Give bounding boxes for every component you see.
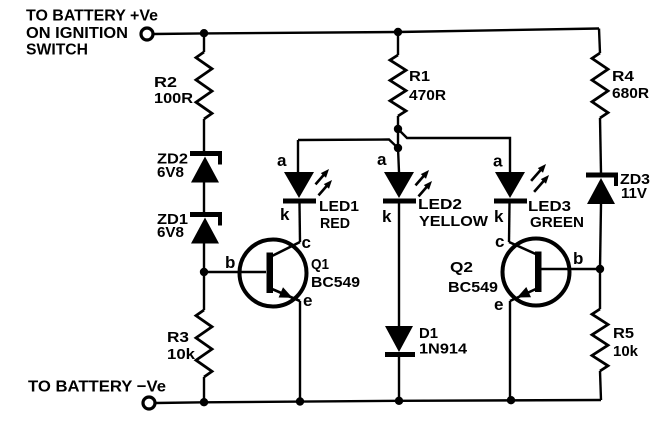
wire: LED1 cathode to Q1 collector — [298, 204, 301, 243]
svg-text:LED2: LED2 — [418, 196, 462, 213]
LED3 emission arrows — [531, 169, 541, 181]
resistor R1 — [390, 55, 406, 116]
wire: top positive supply rail — [154, 29, 600, 35]
svg-text:k: k — [382, 207, 392, 226]
LED2 emission arrows — [416, 175, 425, 185]
svg-text:c: c — [302, 233, 311, 252]
svg-text:1N914: 1N914 — [419, 341, 468, 358]
node: top rail junction at R2 — [200, 29, 208, 37]
resistor R2 — [196, 52, 212, 119]
wire: R2 to ZD2 — [203, 119, 205, 151]
wire: node A to LED3 branch (goes right) — [398, 129, 510, 172]
wire: ZD1 to base node — [203, 243, 205, 310]
node: junction ZD3 / R5 / Q2 base — [596, 265, 604, 273]
svg-text:R2: R2 — [154, 74, 177, 91]
wire: Q2 emitter to bottom rail — [509, 301, 511, 400]
terminal: battery -Ve (open circle) — [143, 397, 155, 409]
svg-text:LED1: LED1 — [319, 198, 359, 215]
node: junction ZD1 / R3 / Q1 base — [200, 268, 208, 276]
wire: node A to node B — [397, 129, 399, 148]
node: bottom rail junction at Q1 emitter — [296, 397, 304, 405]
svg-text:6V8: 6V8 — [157, 164, 184, 181]
wire: node to R5 — [599, 269, 601, 309]
LED LED3 — [495, 172, 525, 198]
wire: top rail corner to R4 — [599, 29, 600, 54]
wire: ZD3 to Q2 base node — [600, 204, 601, 269]
wire: R3 to bottom rail — [203, 377, 205, 402]
svg-text:TO BATTERY +Ve: TO BATTERY +Ve — [26, 8, 158, 25]
svg-text:e: e — [494, 295, 503, 314]
wire: LED3 cathode to Q2 collector — [508, 204, 511, 243]
svg-text:6V8: 6V8 — [157, 224, 184, 241]
transistor Q2 (BC549 NPN) — [503, 239, 570, 306]
svg-text:YELLOW: YELLOW — [419, 213, 489, 230]
svg-text:BC549: BC549 — [448, 279, 498, 296]
svg-text:a: a — [493, 152, 503, 171]
node A: junction R1 / wire to LED3 — [394, 125, 402, 133]
svg-text:LED3: LED3 — [528, 198, 571, 215]
LED LED2 — [384, 172, 414, 198]
zener diode ZD2 — [190, 151, 222, 156]
svg-text:e: e — [303, 291, 312, 310]
wire: ZD2 to ZD1 — [203, 182, 205, 212]
svg-text:GREEN: GREEN — [530, 214, 584, 231]
wire: D1 cathode to bottom rail — [398, 356, 400, 401]
svg-text:b: b — [573, 249, 583, 268]
wire: R5 to bottom rail corner — [600, 371, 601, 400]
resistor R3 — [196, 310, 212, 377]
node: top rail junction at R1 — [394, 28, 402, 36]
LED LED1 — [284, 172, 314, 198]
wire: Q1 emitter to bottom rail — [299, 301, 301, 402]
svg-text:R3: R3 — [167, 329, 189, 346]
svg-text:D1: D1 — [419, 325, 438, 342]
svg-text:Q1: Q1 — [311, 256, 329, 273]
transistor Q1 (BC549 NPN) — [240, 240, 307, 307]
svg-text:ON IGNITION: ON IGNITION — [26, 25, 128, 42]
svg-text:a: a — [277, 151, 287, 170]
zener diode ZD1 — [190, 212, 222, 217]
svg-text:BC549: BC549 — [311, 274, 360, 291]
svg-text:470R: 470R — [409, 87, 446, 104]
wire: top rail to R2 — [203, 33, 205, 52]
wire: LED2 cathode to D1 anode — [398, 204, 400, 327]
wire: node B to LED1 branch (goes left) — [298, 140, 398, 149]
svg-text:b: b — [225, 253, 235, 272]
node: bottom rail junction at R3 — [200, 398, 208, 406]
svg-text:SWITCH: SWITCH — [26, 42, 88, 59]
svg-text:Q2: Q2 — [450, 259, 473, 276]
svg-text:a: a — [377, 150, 387, 169]
wire: R1 to node A — [397, 116, 399, 129]
svg-text:R1: R1 — [409, 68, 430, 85]
terminal: battery +Ve (open circle) — [141, 28, 153, 40]
diode D1 — [385, 326, 413, 352]
node B: junction LED2 / wire to LED1 — [394, 144, 402, 152]
wire: bottom negative supply rail — [156, 400, 602, 403]
svg-text:R4: R4 — [612, 68, 635, 85]
svg-text:680R: 680R — [612, 85, 649, 102]
LED1 emission arrows — [316, 174, 325, 184]
svg-text:k: k — [494, 207, 504, 226]
svg-text:RED: RED — [320, 215, 350, 232]
svg-text:10k: 10k — [167, 346, 196, 363]
svg-text:k: k — [280, 205, 290, 224]
node: bottom rail junction at D1 — [395, 397, 403, 405]
resistor R4 — [592, 53, 608, 118]
svg-text:100R: 100R — [154, 90, 193, 107]
wire: Q2 base to R4/ZD3/R5 node — [541, 268, 600, 270]
wire: top rail to R1 — [397, 32, 399, 55]
wire: LED1 anode drop — [297, 140, 299, 172]
zener diode ZD3 — [586, 173, 618, 178]
svg-text:c: c — [495, 232, 504, 251]
svg-text:11V: 11V — [621, 185, 647, 202]
resistor R5 — [592, 309, 608, 371]
svg-text:TO BATTERY −Ve: TO BATTERY −Ve — [28, 379, 166, 396]
wire: Q1 base to ZD1/R3 node — [204, 271, 266, 273]
svg-text:10k: 10k — [613, 343, 639, 360]
wire: node B to LED2 anode — [398, 148, 399, 172]
wire: R4 to ZD3 — [600, 118, 601, 173]
node: bottom rail junction at Q2 emitter — [507, 396, 515, 404]
svg-text:R5: R5 — [613, 325, 634, 342]
